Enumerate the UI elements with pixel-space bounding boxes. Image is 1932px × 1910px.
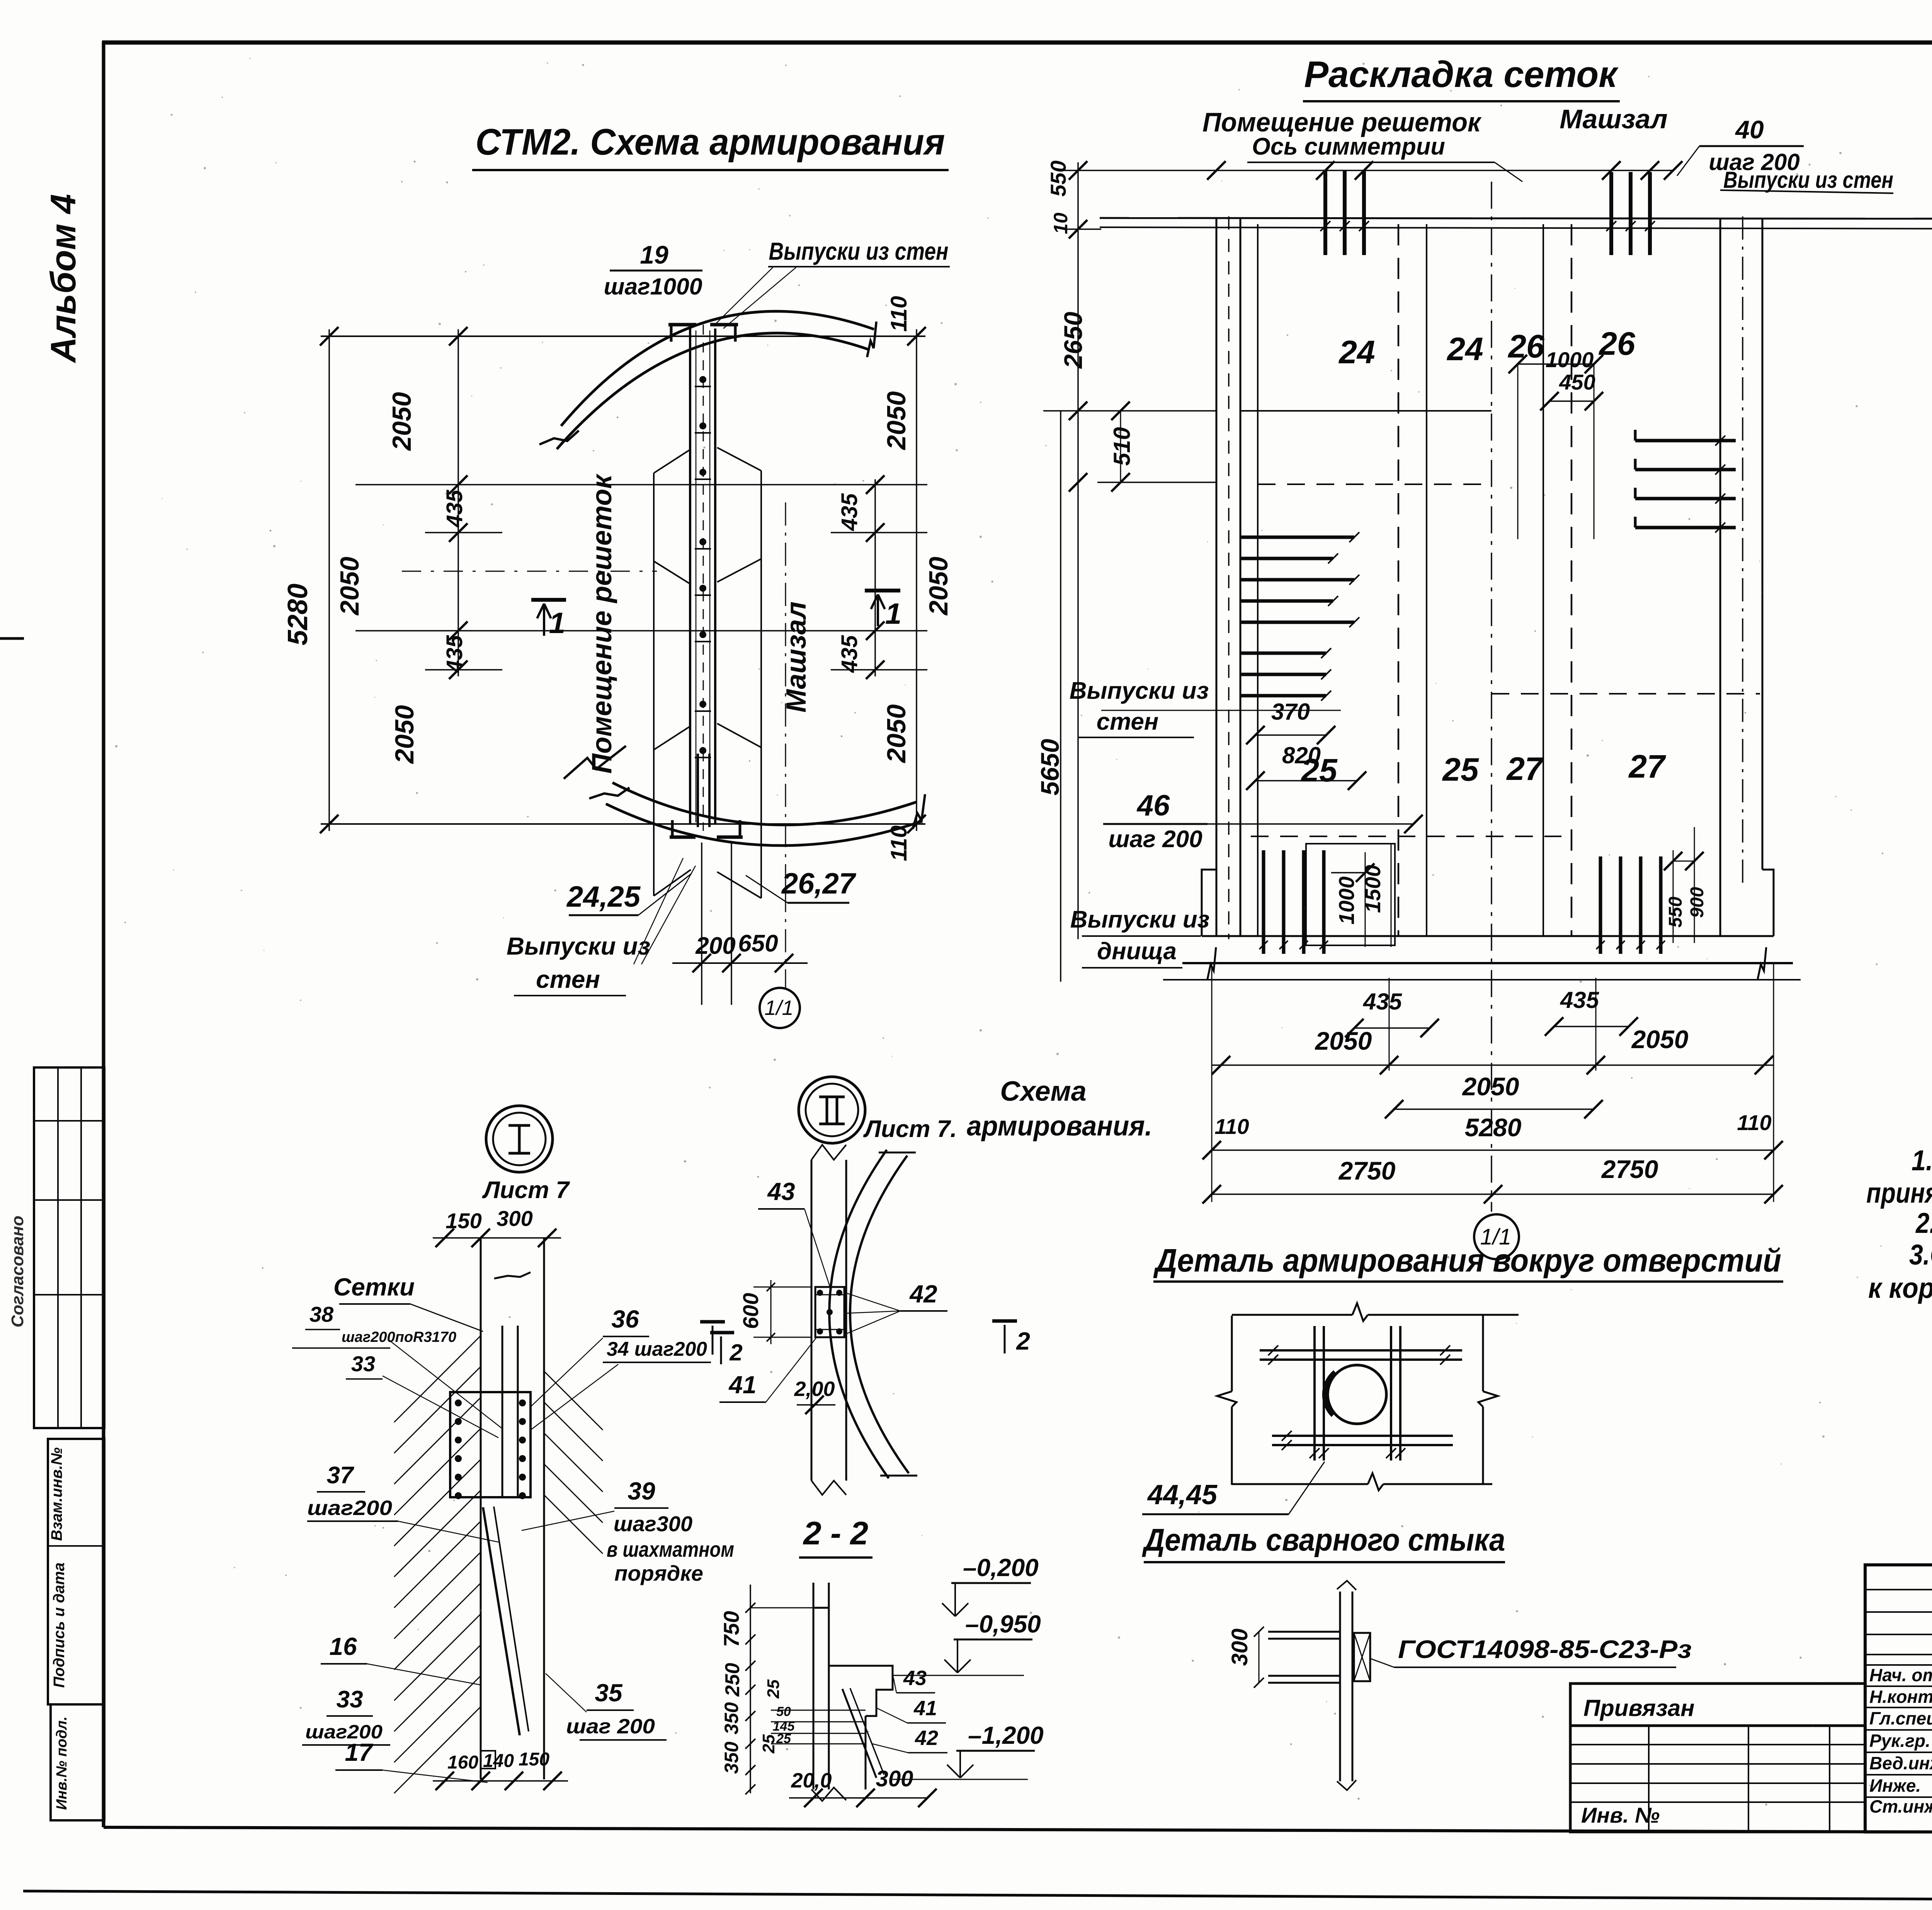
title block upper rows <box>1865 1589 1932 1590</box>
svg-text:2050: 2050 <box>387 392 417 451</box>
svg-text:37: 37 <box>327 1462 354 1489</box>
svg-text:стен: стен <box>1097 708 1159 735</box>
fig1 wall strip inner lines <box>696 330 697 822</box>
fig2 opening box <box>1306 844 1395 945</box>
svg-text:41: 41 <box>728 1371 756 1399</box>
fig1 lower break arc band <box>612 783 917 825</box>
svg-text:110: 110 <box>1214 1114 1249 1139</box>
fig1 mashzal axis dash-dot <box>785 502 786 889</box>
svg-text:Гл.спец.: Гл.спец. <box>1869 1708 1932 1728</box>
svg-text:550: 550 <box>1665 897 1686 928</box>
fig1 bottom splice bars <box>697 754 699 827</box>
svg-text:2: 2 <box>1016 1327 1030 1355</box>
detail I vertical rebar pair <box>502 1326 503 1496</box>
svg-text:140: 140 <box>483 1751 514 1771</box>
svg-text:–1,200: –1,200 <box>968 1721 1044 1749</box>
svg-text:СТМ2. Схема армирования: СТМ2. Схема армирования <box>476 121 945 163</box>
svg-text:Схема: Схема <box>1000 1076 1087 1107</box>
fig2 bottom rebar bars right cluster <box>1599 856 1602 954</box>
svg-text:Ст.инж: Ст.инж <box>1869 1796 1932 1816</box>
detail II embed box <box>815 1287 844 1337</box>
svg-text:38: 38 <box>310 1302 334 1326</box>
svg-text:435: 435 <box>442 490 467 528</box>
fig2 bottom dim verticals <box>1211 963 1213 1202</box>
svg-text:Альбом 4: Альбом 4 <box>44 194 83 363</box>
svg-text:435: 435 <box>837 493 862 531</box>
svg-text:в шахматном: в шахматном <box>607 1537 734 1561</box>
svg-text:днища: днища <box>1097 938 1177 965</box>
fig2 right wall rebar bars <box>1635 439 1736 443</box>
svg-text:Деталь армирования вокруг отве: Деталь армирования вокруг отверстий <box>1153 1242 1781 1278</box>
scan speckles <box>941 322 943 324</box>
detail I section mark 2 small <box>710 1331 734 1335</box>
svg-text:Инже.: Инже. <box>1869 1776 1921 1796</box>
svg-text:Лист 7: Лист 7 <box>482 1177 570 1204</box>
fig2 right wall bottom step <box>1762 870 1774 936</box>
sheet frame border <box>102 42 105 1827</box>
svg-text:43: 43 <box>903 1667 927 1690</box>
svg-text:900: 900 <box>1687 887 1708 918</box>
svg-text:Машзал: Машзал <box>781 601 812 712</box>
svg-text:20,0: 20,0 <box>791 1769 832 1792</box>
detail 2-2 slanted bar <box>842 1689 876 1778</box>
svg-text:2 - 2: 2 - 2 <box>803 1515 868 1551</box>
svg-text:Машзал: Машзал <box>1560 104 1667 134</box>
fig1 wall axis dashed <box>703 325 704 831</box>
svg-text:2050: 2050 <box>1462 1072 1519 1101</box>
svg-text:110: 110 <box>886 296 912 332</box>
svg-text:1: 1 <box>549 607 565 640</box>
svg-text:26,27: 26,27 <box>781 867 857 900</box>
svg-text:350: 350 <box>721 1741 742 1774</box>
svg-text:33: 33 <box>337 1686 363 1713</box>
detail I column verticals <box>480 1238 482 1779</box>
svg-text:1/1: 1/1 <box>764 996 793 1020</box>
detail I bottom step <box>481 1751 495 1769</box>
detail I hatching left <box>394 1336 481 1422</box>
svg-text:650: 650 <box>738 930 778 957</box>
svg-text:750: 750 <box>719 1611 743 1647</box>
svg-text:3.Отверстия всетках вырезать: 3.Отверстия всетках вырезать по месту. К… <box>1909 1239 1932 1271</box>
svg-text:Инв.№ подл.: Инв.№ подл. <box>54 1716 70 1810</box>
fig1 wall plan outline <box>653 473 655 896</box>
svg-text:стен: стен <box>536 965 600 993</box>
fig2 left wall bottom step <box>1202 870 1216 936</box>
detail 2-2 rebar lines <box>771 1710 866 1711</box>
fig2 left wall verticals <box>1216 218 1218 936</box>
title block attach box Привязан <box>1570 1684 1865 1726</box>
svg-text:5280: 5280 <box>282 584 313 645</box>
fig2 section bubble 1/1 <box>1474 1214 1519 1259</box>
svg-text:Сетки: Сетки <box>333 1273 415 1301</box>
svg-text:25: 25 <box>1442 751 1479 788</box>
svg-text:Нач. отд.: Нач. отд. <box>1869 1665 1932 1685</box>
fig1 section mark 1 left <box>531 598 566 602</box>
fig2 top slab lines <box>1100 218 1932 219</box>
detail I bubble <box>486 1106 553 1172</box>
left edge mark <box>0 637 24 640</box>
svg-text:10: 10 <box>1050 213 1071 234</box>
svg-text:17: 17 <box>345 1738 374 1766</box>
svg-text:1000: 1000 <box>1334 877 1359 925</box>
opening detail slab outline <box>1231 1316 1233 1391</box>
svg-text:Привязан: Привязан <box>1583 1695 1694 1721</box>
svg-text:25: 25 <box>776 1731 791 1746</box>
detail I hatching right <box>544 1371 603 1430</box>
svg-text:33: 33 <box>351 1352 375 1376</box>
svg-text:40: 40 <box>1735 115 1764 144</box>
fig1 dim horizontals <box>321 335 925 337</box>
svg-text:600: 600 <box>738 1293 763 1329</box>
svg-text:44,45: 44,45 <box>1147 1479 1218 1510</box>
svg-text:принят 25мм.: принят 25мм. <box>1866 1177 1932 1209</box>
svg-text:2050: 2050 <box>335 557 364 616</box>
svg-text:24: 24 <box>1446 331 1483 367</box>
svg-text:1000: 1000 <box>1546 347 1594 372</box>
svg-text:шаг200поR3170: шаг200поR3170 <box>342 1329 456 1345</box>
svg-text:к корпусу сальника.: к корпусу сальника. <box>1868 1272 1932 1304</box>
fig2 left dim column <box>1063 170 1673 171</box>
svg-text:42: 42 <box>915 1726 938 1750</box>
weld detail vertical bars <box>1339 1592 1341 1781</box>
svg-text:2050: 2050 <box>1315 1026 1372 1055</box>
svg-text:Выпуски из стен: Выпуски из стен <box>769 237 949 265</box>
svg-text:Выпуски из: Выпуски из <box>1070 678 1209 704</box>
opening detail bar end ticks <box>1268 1345 1278 1355</box>
fig2 left wall rebar bars lower <box>1240 652 1326 655</box>
svg-text:–0,200: –0,200 <box>963 1554 1039 1581</box>
detail 2-2 wall profile <box>813 1583 815 1789</box>
svg-text:510: 510 <box>1109 427 1135 466</box>
svg-text:шаг200: шаг200 <box>307 1496 392 1520</box>
svg-text:34 шаг200: 34 шаг200 <box>607 1338 707 1360</box>
svg-text:2050: 2050 <box>390 705 419 764</box>
fig1 center axis dash <box>402 571 657 572</box>
svg-text:435: 435 <box>837 635 862 673</box>
fig1 section mark 1 right <box>865 589 900 592</box>
svg-text:шаг 200: шаг 200 <box>566 1715 655 1738</box>
detail I diagonal braces <box>483 1507 520 1735</box>
svg-text:армирования.: армирования. <box>967 1111 1152 1142</box>
svg-text:шаг 200: шаг 200 <box>1108 826 1202 853</box>
svg-text:2,00: 2,00 <box>794 1377 835 1401</box>
svg-text:2650: 2650 <box>1059 312 1087 369</box>
svg-text:5650: 5650 <box>1036 739 1064 795</box>
fig2 bottom rebar bars left cluster <box>1262 850 1265 954</box>
svg-text:2050: 2050 <box>882 704 911 763</box>
svg-text:41: 41 <box>913 1697 937 1720</box>
detail II bubble <box>799 1077 865 1143</box>
left margin stamp table upper <box>34 1067 104 1428</box>
opening detail mesh bars horizontal bottom <box>1272 1435 1453 1437</box>
svg-text:Н.контр.: Н.контр. <box>1869 1687 1932 1707</box>
svg-text:порядке: порядке <box>614 1561 703 1585</box>
opening detail mesh bars horizontal top <box>1260 1349 1462 1352</box>
svg-text:435: 435 <box>1560 987 1600 1013</box>
svg-text:19: 19 <box>640 240 668 269</box>
svg-text:2050: 2050 <box>882 391 911 450</box>
title block name rows <box>1865 1664 1932 1666</box>
svg-text:550: 550 <box>1046 160 1070 196</box>
svg-text:2: 2 <box>729 1340 742 1365</box>
svg-text:450: 450 <box>1559 370 1595 394</box>
svg-text:25: 25 <box>759 1734 778 1753</box>
svg-text:350: 350 <box>721 1702 742 1735</box>
svg-text:Выпуски из стен: Выпуски из стен <box>1723 167 1893 193</box>
title block attach table <box>1570 1726 1865 1832</box>
svg-text:Помещение решеток: Помещение решеток <box>1202 107 1482 137</box>
detail I embed box with studs <box>450 1392 531 1497</box>
svg-text:43: 43 <box>767 1178 795 1205</box>
svg-text:–0,950: –0,950 <box>965 1610 1041 1638</box>
fig1 bottom rebar hooks <box>670 836 696 839</box>
fig1 dim verticals <box>328 329 330 831</box>
fig1 top rebar hooks <box>668 323 696 327</box>
svg-text:Деталь сварного стыка: Деталь сварного стыка <box>1142 1522 1505 1558</box>
svg-text:ГОСТ14098-85-С23-Рз: ГОСТ14098-85-С23-Рз <box>1398 1635 1692 1663</box>
svg-text:435: 435 <box>442 635 467 673</box>
fig1 section bubble 1/1 <box>760 988 800 1028</box>
svg-text:250: 250 <box>721 1663 744 1697</box>
svg-text:2050: 2050 <box>1631 1025 1689 1054</box>
detail 2-2 left dims <box>750 1585 751 1793</box>
svg-text:16: 16 <box>329 1633 357 1660</box>
weld detail splice plate <box>1354 1633 1370 1681</box>
detail II wall strip <box>811 1160 813 1481</box>
fig1 leader lines to wall outlets <box>716 267 773 324</box>
svg-text:24: 24 <box>1338 334 1375 370</box>
svg-text:Рук.гр.: Рук.гр. <box>1869 1731 1930 1751</box>
svg-text:шаг300: шаг300 <box>614 1512 692 1536</box>
opening detail hole circle <box>1328 1365 1386 1424</box>
svg-text:300: 300 <box>1227 1629 1252 1666</box>
svg-text:шаг1000: шаг1000 <box>604 274 702 300</box>
weld detail horizontal bars <box>1268 1631 1340 1633</box>
svg-text:2750: 2750 <box>1338 1156 1396 1185</box>
svg-text:1: 1 <box>885 598 901 630</box>
svg-text:42: 42 <box>909 1280 937 1308</box>
svg-text:50: 50 <box>776 1704 791 1719</box>
fig1 lower-left break wing <box>564 746 626 779</box>
svg-text:Инв. №: Инв. № <box>1581 1803 1660 1827</box>
fig1 mesh splice marks <box>695 386 711 387</box>
svg-text:370: 370 <box>1271 699 1310 725</box>
svg-text:24,25: 24,25 <box>566 880 641 913</box>
fig2 inner mesh verticals <box>1257 224 1259 936</box>
fig2 wall outlet bars top right <box>1609 172 1613 255</box>
fig2 inner horizontal mesh edge <box>1240 410 1492 412</box>
svg-text:Выпуски из: Выпуски из <box>507 932 650 960</box>
svg-text:150: 150 <box>519 1749 549 1770</box>
svg-text:Помещение решеток: Помещение решеток <box>587 473 617 774</box>
svg-text:Вед.инж.: Вед.инж. <box>1869 1753 1932 1773</box>
svg-text:820: 820 <box>1282 742 1321 768</box>
svg-text:110: 110 <box>886 826 912 861</box>
opening detail mesh bars vertical left <box>1313 1326 1316 1461</box>
fig2 left wall rebar bars upper <box>1240 536 1354 539</box>
svg-text:5280: 5280 <box>1465 1113 1522 1142</box>
svg-text:300: 300 <box>876 1766 913 1791</box>
svg-text:35: 35 <box>595 1679 623 1707</box>
svg-text:Ось симметрии: Ось симметрии <box>1252 133 1445 160</box>
svg-text:110: 110 <box>1737 1110 1771 1135</box>
left margin box Инв.№ подл. <box>51 1704 104 1820</box>
svg-text:27: 27 <box>1506 751 1544 787</box>
fig2 dashed lap lines <box>1258 483 1492 485</box>
svg-text:Согласовано: Согласовано <box>8 1215 27 1327</box>
svg-text:Подпись и дата: Подпись и дата <box>51 1563 68 1688</box>
svg-text:2. Арматурные выпуски поз.40: 2. Арматурные выпуски поз.40 приварить к… <box>1915 1207 1932 1239</box>
detail II arc band <box>829 1150 889 1478</box>
fig2 symmetry axis dash-dot <box>1491 182 1492 1212</box>
title block outer box <box>1865 1565 1932 1832</box>
svg-text:25: 25 <box>764 1679 783 1699</box>
svg-text:435: 435 <box>1363 989 1403 1015</box>
svg-text:150: 150 <box>446 1209 481 1233</box>
svg-text:26: 26 <box>1507 328 1545 364</box>
svg-text:39: 39 <box>628 1477 655 1505</box>
svg-text:46: 46 <box>1136 789 1170 822</box>
fig2 wall outlet bars top left <box>1323 171 1327 255</box>
fig1 wall strip verticals <box>689 329 691 824</box>
left margin box Взам.инв. / Подпись и дата <box>48 1439 104 1704</box>
fig2 ground line <box>1163 979 1801 981</box>
fig2 bottom slab <box>1202 935 1774 937</box>
svg-text:Лист 7.: Лист 7. <box>863 1116 957 1142</box>
fig1 upper break arc band <box>561 311 874 426</box>
svg-text:26: 26 <box>1598 325 1636 362</box>
svg-text:Взам.инв.№: Взам.инв.№ <box>48 1447 65 1541</box>
svg-text:27: 27 <box>1628 748 1666 785</box>
svg-text:Раскладка сеток: Раскладка сеток <box>1304 54 1619 95</box>
svg-text:2750: 2750 <box>1601 1155 1658 1183</box>
fig2 right wall verticals <box>1719 218 1721 936</box>
opening detail mesh bars vertical right <box>1390 1326 1392 1461</box>
svg-text:Выпуски из: Выпуски из <box>1070 906 1210 933</box>
svg-text:300: 300 <box>497 1206 532 1231</box>
svg-text:36: 36 <box>611 1305 639 1333</box>
svg-text:160: 160 <box>447 1752 478 1773</box>
svg-text:2050: 2050 <box>924 557 953 616</box>
svg-text:1. Защитный слой бетона для ра: 1. Защитный слой бетона для рабочей арма… <box>1912 1144 1932 1176</box>
detail II section marks 2 <box>700 1320 725 1324</box>
